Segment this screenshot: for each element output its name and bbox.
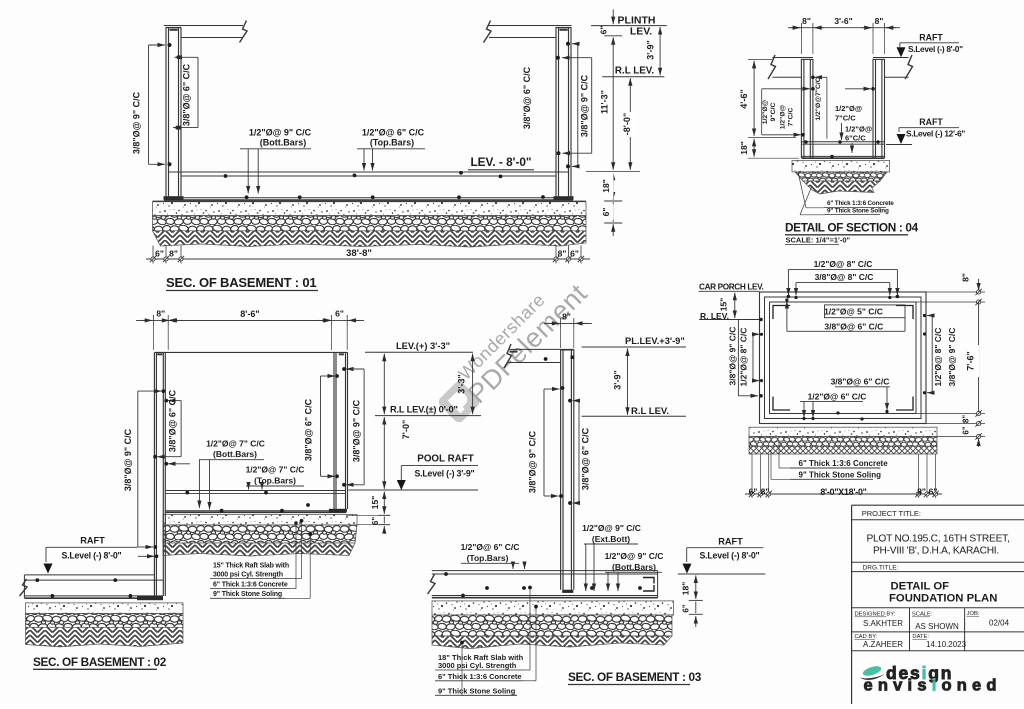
- svg-text:1/2"Ø@ 6" C/C: 1/2"Ø@ 6" C/C: [808, 392, 867, 402]
- svg-text:1/2"Ø@ 9" C/C: 1/2"Ø@ 9" C/C: [249, 128, 312, 138]
- svg-text:3/8"Ø@ 9" C/C: 3/8"Ø@ 9" C/C: [528, 430, 538, 493]
- svg-text:15": 15": [719, 298, 729, 312]
- svg-text:6": 6": [682, 604, 691, 612]
- svg-text:15": 15": [370, 496, 380, 510]
- svg-text:1/2"Ø@ 6" C/C: 1/2"Ø@ 6" C/C: [362, 128, 425, 138]
- svg-text:9" Thick Stone Soling: 9" Thick Stone Soling: [213, 591, 282, 598]
- svg-text:3/8"Ø@ 9" C/C: 3/8"Ø@ 9" C/C: [132, 91, 142, 154]
- svg-text:3/8"Ø@ 6" C/C: 3/8"Ø@ 6" C/C: [522, 66, 532, 129]
- svg-text:9" Thick Stone Soling: 9" Thick Stone Soling: [438, 686, 516, 695]
- svg-text:8": 8": [962, 415, 971, 423]
- svg-text:8": 8": [917, 487, 926, 497]
- svg-text:3/8"Ø@ 6" C/C: 3/8"Ø@ 6" C/C: [581, 427, 591, 490]
- svg-text:1/2"Ø@: 1/2"Ø@: [780, 104, 787, 129]
- svg-text:6": 6": [749, 487, 758, 497]
- svg-text:LEV.: LEV.: [630, 26, 652, 38]
- svg-text:1/2"Ø@ 6" C/C: 1/2"Ø@ 6" C/C: [461, 542, 520, 552]
- svg-text:1/2"Ø@ 9" C/C: 1/2"Ø@ 9" C/C: [605, 551, 664, 561]
- svg-text:3/8"Ø@ 6" C/C: 3/8"Ø@ 6" C/C: [824, 322, 883, 332]
- svg-text:CAR PORCH LEV.: CAR PORCH LEV.: [699, 282, 763, 291]
- svg-text:PROJECT TITLE:: PROJECT TITLE:: [862, 509, 921, 518]
- svg-text:6" Thick 1:3:6 Concrete: 6" Thick 1:3:6 Concrete: [827, 200, 894, 207]
- svg-text:(Top.Bars): (Top.Bars): [254, 476, 296, 486]
- svg-text:1/2"Ø@: 1/2"Ø@: [845, 125, 872, 134]
- svg-text:SCALE: 1/4"=1'-0": SCALE: 1/4"=1'-0": [786, 235, 851, 244]
- svg-text:DRG.TITLE:: DRG.TITLE:: [863, 564, 899, 571]
- svg-text:18": 18": [739, 141, 749, 155]
- svg-text:9" Thick Stone Soling: 9" Thick Stone Soling: [799, 470, 882, 479]
- svg-text:9"C/C: 9"C/C: [770, 103, 777, 122]
- svg-text:S.Level (-) 8'-0": S.Level (-) 8'-0": [908, 44, 963, 54]
- svg-text:6"C/C: 6"C/C: [845, 134, 866, 143]
- svg-text:6": 6": [929, 487, 938, 497]
- svg-text:(Top.Bars): (Top.Bars): [467, 553, 509, 563]
- svg-text:4'-6": 4'-6": [739, 89, 749, 108]
- svg-text:3/8"Ø@ 9" C/C: 3/8"Ø@ 9" C/C: [580, 74, 590, 137]
- svg-text:(Ext.Bott): (Ext.Bott): [592, 534, 630, 544]
- svg-text:38'-8": 38'-8": [346, 248, 372, 259]
- svg-text:8'-6": 8'-6": [240, 309, 259, 319]
- svg-text:SEC. OF BASEMENT : 02: SEC. OF BASEMENT : 02: [33, 655, 167, 669]
- svg-text:3/8"Ø@ 9" C/C: 3/8"Ø@ 9" C/C: [123, 428, 133, 491]
- svg-text:R.L LEV.: R.L LEV.: [631, 406, 669, 417]
- svg-text:8": 8": [961, 273, 971, 282]
- svg-text:8": 8": [875, 16, 884, 26]
- svg-text:8": 8": [169, 249, 178, 259]
- svg-text:8'-0"X18'-0": 8'-0"X18'-0": [820, 487, 866, 497]
- svg-text:02/04: 02/04: [989, 618, 1010, 627]
- svg-text:8": 8": [761, 487, 770, 497]
- svg-text:8": 8": [156, 309, 165, 319]
- svg-text:AS SHOWN: AS SHOWN: [915, 622, 959, 631]
- svg-text:3/8"Ø@ 9" C/C: 3/8"Ø@ 9" C/C: [947, 328, 957, 387]
- svg-text:7"C/C: 7"C/C: [788, 108, 795, 127]
- svg-text:R.L LEV.: R.L LEV.: [615, 66, 654, 77]
- svg-text:SEC. OF BASEMENT : 03: SEC. OF BASEMENT : 03: [568, 670, 702, 684]
- svg-text:3'-9": 3'-9": [646, 40, 656, 59]
- svg-text:(Bott.Bars): (Bott.Bars): [213, 449, 257, 459]
- svg-text:18": 18": [601, 179, 611, 193]
- svg-text:6": 6": [570, 249, 579, 259]
- svg-text:(Bott.Bars): (Bott.Bars): [260, 138, 307, 148]
- svg-text:3000 psi Cyl. Strength: 3000 psi Cyl. Strength: [438, 661, 517, 670]
- svg-text:14.10.2023: 14.10.2023: [926, 640, 967, 649]
- svg-text:8": 8": [562, 312, 571, 322]
- svg-text:A.ZAHEER: A.ZAHEER: [863, 640, 903, 649]
- svg-text:8": 8": [802, 16, 811, 26]
- svg-text:7'-6": 7'-6": [966, 351, 976, 370]
- svg-text:3/8"Ø@ 6" C/C: 3/8"Ø@ 6" C/C: [304, 398, 314, 461]
- svg-text:7'-0": 7'-0": [401, 420, 411, 439]
- svg-text:1/2"Ø@ 5" C/C: 1/2"Ø@ 5" C/C: [824, 307, 883, 317]
- svg-text:1/2"Ø@ 8" C/C: 1/2"Ø@ 8" C/C: [814, 259, 873, 269]
- svg-text:3000 psi Cyl. Strength: 3000 psi Cyl. Strength: [213, 572, 283, 579]
- svg-text:8": 8": [558, 249, 567, 259]
- svg-text:R.L LEV.(±) 0'-0": R.L LEV.(±) 0'-0": [390, 405, 458, 415]
- svg-text:3/8"Ø@ 8" C/C: 3/8"Ø@ 8" C/C: [815, 272, 874, 282]
- svg-text:3/8"Ø@ 6" C/C: 3/8"Ø@ 6" C/C: [182, 63, 192, 126]
- svg-text:RAFT: RAFT: [919, 33, 943, 43]
- svg-text:11'-3": 11'-3": [600, 90, 610, 114]
- svg-text:6" Thick 1:3:6 Concrete: 6" Thick 1:3:6 Concrete: [213, 582, 288, 589]
- svg-text:S.Level (-) 8'-0": S.Level (-) 8'-0": [61, 551, 121, 561]
- svg-text:RAFT: RAFT: [80, 536, 105, 546]
- svg-text:1/2"Ø@ 7" C/C: 1/2"Ø@ 7" C/C: [246, 465, 305, 475]
- svg-text:1/2"Ø@ 8" C/C: 1/2"Ø@ 8" C/C: [933, 328, 943, 387]
- svg-text:LEV. - 8'-0": LEV. - 8'-0": [470, 155, 531, 169]
- svg-text:S.Level (-) 3'-9": S.Level (-) 3'-9": [414, 469, 474, 479]
- svg-text:7"C/C: 7"C/C: [835, 114, 856, 123]
- svg-text:3/8"Ø@ 6" C/C: 3/8"Ø@ 6" C/C: [831, 377, 890, 387]
- svg-text:6": 6": [335, 309, 344, 319]
- svg-text:3/8"Ø@ 6" C/C: 3/8"Ø@ 6" C/C: [168, 389, 178, 452]
- svg-text:6": 6": [601, 208, 611, 217]
- svg-text:18": 18": [681, 582, 691, 596]
- svg-text:1/2"Ø@: 1/2"Ø@: [762, 99, 769, 124]
- svg-text:1/2"Ø@ 9" C/C: 1/2"Ø@ 9" C/C: [582, 523, 641, 533]
- svg-text:(Top.Bars): (Top.Bars): [370, 138, 414, 148]
- svg-text:3'-3": 3'-3": [457, 374, 467, 393]
- svg-text:PH-VIII 'B', D.H.A, KARACHI.: PH-VIII 'B', D.H.A, KARACHI.: [873, 546, 999, 557]
- svg-text:3'-9": 3'-9": [613, 370, 623, 389]
- svg-text:1/2"Ø@ 7" C/C: 1/2"Ø@ 7" C/C: [206, 439, 265, 449]
- svg-text:SEC. OF BASEMENT : 01: SEC. OF BASEMENT : 01: [166, 275, 316, 290]
- svg-text:envisioned: envisioned: [864, 677, 1002, 695]
- svg-text:FOUNDATION PLAN: FOUNDATION PLAN: [889, 592, 997, 604]
- svg-text:RAFT: RAFT: [718, 537, 743, 547]
- svg-text:6": 6": [371, 517, 380, 525]
- svg-text:DETAIL OF SECTION : 04: DETAIL OF SECTION : 04: [785, 221, 919, 235]
- svg-text:LEV.(+) 3'-3": LEV.(+) 3'-3": [396, 341, 450, 351]
- svg-text:6": 6": [962, 426, 971, 434]
- svg-text:1/2"Ø@: 1/2"Ø@: [835, 104, 862, 113]
- svg-text:PLOT NO.195.C, 16TH STREET,: PLOT NO.195.C, 16TH STREET,: [866, 534, 1009, 545]
- svg-text:POOL RAFT: POOL RAFT: [417, 454, 473, 465]
- svg-text:(Bott.Bars): (Bott.Bars): [612, 562, 656, 572]
- svg-text:3/8"Ø@ 9" C/C: 3/8"Ø@ 9" C/C: [728, 327, 738, 386]
- svg-text:3/8"Ø@ 9" C/C: 3/8"Ø@ 9" C/C: [352, 399, 362, 462]
- svg-text:6" Thick 1:3:6 Concrete: 6" Thick 1:3:6 Concrete: [438, 672, 522, 681]
- svg-text:DETAIL OF: DETAIL OF: [891, 580, 950, 592]
- svg-text:1/2"Ø@7"C/C: 1/2"Ø@7"C/C: [815, 77, 822, 120]
- svg-text:6": 6": [599, 26, 609, 35]
- svg-text:6" Thick 1:3:6 Concrete: 6" Thick 1:3:6 Concrete: [799, 459, 889, 468]
- svg-text:9" Thick Stone Soling: 9" Thick Stone Soling: [827, 207, 889, 214]
- svg-text:1/2"Ø@ 8" C/C: 1/2"Ø@ 8" C/C: [739, 328, 749, 387]
- svg-text:PL.LEV.+3'-9": PL.LEV.+3'-9": [625, 336, 685, 346]
- svg-text:S.Level (-) 12'-6": S.Level (-) 12'-6": [906, 129, 965, 139]
- svg-text:6": 6": [155, 249, 164, 259]
- svg-text:15" Thick Raft Slab with: 15" Thick Raft Slab with: [213, 563, 289, 570]
- svg-text:RAFT: RAFT: [919, 117, 943, 127]
- svg-text:3'-6": 3'-6": [834, 16, 852, 26]
- svg-text:S.AKHTER: S.AKHTER: [863, 619, 903, 628]
- svg-text:S.Level (-) 8'-0": S.Level (-) 8'-0": [699, 550, 759, 560]
- svg-text:-8'-0": -8'-0": [622, 113, 632, 135]
